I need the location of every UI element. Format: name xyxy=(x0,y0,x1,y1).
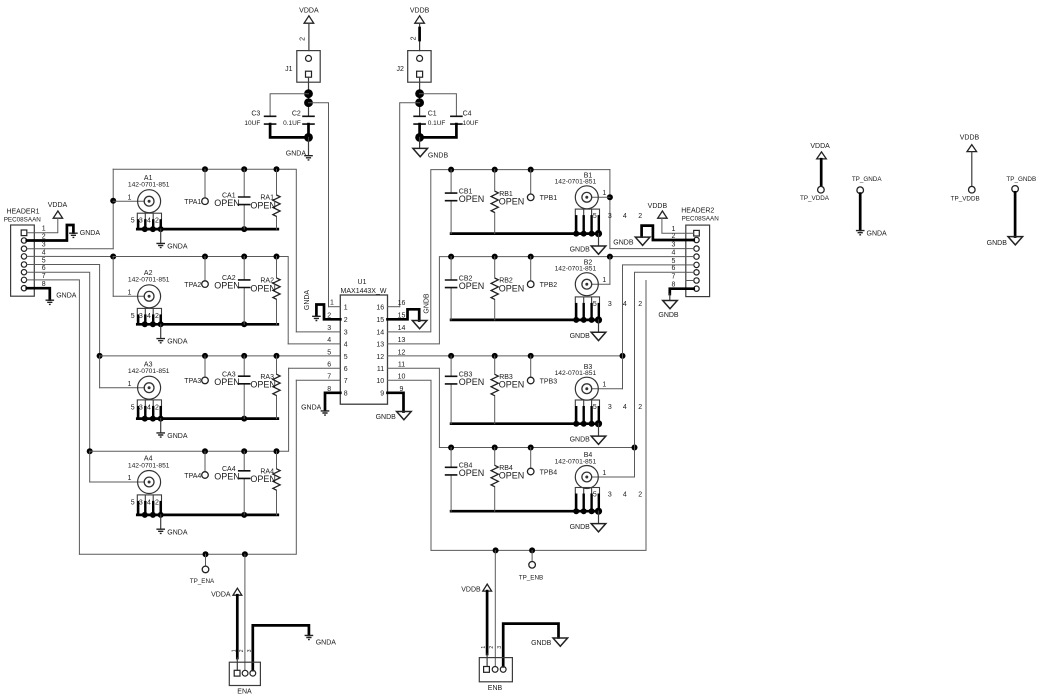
svg-text:PEC08SAAN: PEC08SAAN xyxy=(4,217,42,224)
svg-text:10UF: 10UF xyxy=(244,120,260,127)
svg-text:5: 5 xyxy=(593,213,597,220)
pin number 1 label (B2) xyxy=(602,277,606,284)
svg-text:OPEN: OPEN xyxy=(250,474,276,484)
junction CA1 tap xyxy=(241,166,247,172)
capacitor C2 xyxy=(283,111,315,128)
junction TPA4 tap xyxy=(202,448,208,454)
pin numbers 5 3 4 2 (BNC B2) xyxy=(593,301,642,308)
svg-text:2: 2 xyxy=(155,404,159,411)
svg-text:ENA: ENA xyxy=(237,689,252,696)
ground GNDA (HEADER1 pin 2) xyxy=(69,230,100,237)
svg-text:3: 3 xyxy=(327,325,331,332)
wire net ENA rail xyxy=(79,380,296,554)
svg-text:2: 2 xyxy=(638,404,642,411)
test point TPB4 xyxy=(527,468,557,476)
junction BNC A3 tap xyxy=(97,353,103,359)
svg-text:OPEN: OPEN xyxy=(214,472,240,482)
pin number 1 label (A1) xyxy=(128,194,132,201)
junction BNC B4 tap xyxy=(632,445,638,451)
junction RA1 tap xyxy=(274,166,280,172)
svg-text:14: 14 xyxy=(376,330,384,337)
svg-text:15: 15 xyxy=(376,317,384,324)
wire HEADER2 pin 6 to BNC B4 xyxy=(635,272,686,477)
BNC connector B1 142-0701-851 xyxy=(555,172,599,208)
wire ENA rail to connector pin 2 xyxy=(244,554,246,670)
wire CB1 stubs xyxy=(450,170,452,234)
wire to C4 xyxy=(420,94,457,117)
wire bus to GNDA (A2) xyxy=(160,324,162,338)
svg-text:VDDB: VDDB xyxy=(648,203,668,210)
wire B1 to HEADER2 pin 3 xyxy=(610,170,686,249)
capacitor C4 xyxy=(450,111,478,128)
ground GNDA (bus A3) xyxy=(156,433,187,440)
wire TP_GNDB to GNDB xyxy=(1014,192,1017,236)
junction CA4 tap xyxy=(241,448,247,454)
wire RA2 stubs xyxy=(276,257,278,325)
wire J2 pin 1 down xyxy=(419,77,421,116)
svg-text:5: 5 xyxy=(131,499,135,506)
test point TP_ENA xyxy=(190,566,215,585)
svg-text:2: 2 xyxy=(638,213,642,220)
ground GNDB (bus B4) xyxy=(570,524,606,532)
power symbol VDDB (HEADER2 pin 1) xyxy=(648,203,668,218)
wire net A1 left vertical xyxy=(112,169,114,249)
svg-text:4: 4 xyxy=(42,249,46,256)
wire U1 pin 6 stub xyxy=(289,367,341,369)
wire BNC B3 pin 1 xyxy=(592,388,623,390)
pin numbers 5 3 4 2 (BNC B1) xyxy=(593,213,642,220)
svg-text:4: 4 xyxy=(623,301,627,308)
power symbol VDDB (TP_VDDB) xyxy=(960,134,980,151)
wire B1 top edge xyxy=(388,170,610,332)
ground GNDA (bus A4) xyxy=(156,529,187,536)
svg-text:1: 1 xyxy=(231,649,237,652)
BNC connector A1 142-0701-851 xyxy=(128,175,170,213)
svg-text:3: 3 xyxy=(344,330,348,337)
svg-text:GNDB: GNDB xyxy=(376,414,397,421)
svg-text:2: 2 xyxy=(155,313,159,320)
wire BNC B4 pin 1 xyxy=(592,476,635,478)
capacitor CB4 (OPEN) xyxy=(445,463,485,479)
svg-text:GNDA: GNDA xyxy=(80,230,101,237)
wire RA4 stubs xyxy=(276,451,278,515)
resistor RA1 (OPEN) xyxy=(250,195,280,217)
svg-text:0.1UF: 0.1UF xyxy=(428,120,446,127)
test point TP_ENB xyxy=(519,562,544,582)
ground GNDB (HEADER2 pin 2) xyxy=(613,237,650,246)
BNC A3 pin box xyxy=(137,400,161,419)
wire BNC B2 pin 1 xyxy=(592,283,610,285)
wire U1 pin 16 stub xyxy=(388,306,400,308)
svg-text:C1: C1 xyxy=(428,111,437,118)
ground GNDB (ENB) xyxy=(531,638,568,647)
svg-text:C4: C4 xyxy=(463,111,472,118)
svg-text:142-0701-851: 142-0701-851 xyxy=(128,368,170,375)
svg-text:5: 5 xyxy=(327,349,331,356)
svg-text:10: 10 xyxy=(398,374,406,381)
svg-text:3: 3 xyxy=(608,404,612,411)
svg-text:OPEN: OPEN xyxy=(499,197,525,207)
svg-text:GNDB: GNDB xyxy=(658,312,679,319)
svg-text:TPB2: TPB2 xyxy=(540,282,558,289)
wire U1 pin 8 to GNDA xyxy=(325,393,340,411)
svg-text:OPEN: OPEN xyxy=(250,283,276,293)
svg-text:OPEN: OPEN xyxy=(499,283,525,293)
pin number 2 label (J2) xyxy=(410,36,417,40)
svg-text:J1: J1 xyxy=(285,66,293,73)
svg-text:TPB1: TPB1 xyxy=(540,195,558,202)
wire A3 stub to BNC xyxy=(99,356,101,388)
test point TPB3 xyxy=(527,377,557,385)
svg-text:GNDA: GNDA xyxy=(316,639,337,646)
resistor RB1 (OPEN) xyxy=(491,191,524,213)
wire HEADER2 pin 5 stub xyxy=(686,264,694,266)
svg-text:U1: U1 xyxy=(358,279,367,286)
svg-text:HEADER2: HEADER2 xyxy=(681,208,714,215)
svg-text:1: 1 xyxy=(602,277,606,284)
svg-text:PEC08SAAN: PEC08SAAN xyxy=(682,216,720,223)
svg-text:5: 5 xyxy=(131,218,135,225)
junction bus dots A3 xyxy=(142,416,247,422)
ground GNDA (U1 pin 2) xyxy=(304,290,321,321)
svg-text:OPEN: OPEN xyxy=(214,281,240,291)
svg-text:GNDA: GNDA xyxy=(867,231,888,238)
wire net ENB rail xyxy=(388,281,647,551)
svg-text:3: 3 xyxy=(247,649,253,652)
ground GNDA (TP_GNDA) xyxy=(856,231,887,238)
svg-text:TP_ENA: TP_ENA xyxy=(190,578,215,585)
svg-text:VDDB: VDDB xyxy=(410,7,430,14)
BNC A2 pin box xyxy=(137,308,161,324)
junction RB4 tap xyxy=(492,445,498,451)
svg-text:4: 4 xyxy=(623,213,627,220)
svg-text:1: 1 xyxy=(344,305,348,312)
wire VDDB to ENB pin 1 xyxy=(486,591,489,666)
test point TP_GNDB xyxy=(1006,176,1036,192)
svg-text:142-0701-851: 142-0701-851 xyxy=(128,462,170,469)
wire TP_ENA stub xyxy=(205,554,207,566)
junction CA2 tap xyxy=(241,254,247,260)
wire C3/C2 ground join xyxy=(270,124,308,137)
test point TP_VDDB xyxy=(951,186,980,202)
svg-text:2: 2 xyxy=(638,491,642,498)
svg-text:7: 7 xyxy=(327,373,331,380)
svg-text:4: 4 xyxy=(623,491,627,498)
connector HEADER1 PEC08SAAN xyxy=(4,208,42,296)
junction bus dots B2 xyxy=(573,316,602,323)
svg-text:142-0701-851: 142-0701-851 xyxy=(128,182,170,189)
svg-text:11: 11 xyxy=(377,366,384,373)
wire B2 top edge xyxy=(388,257,686,344)
junction TP_ENA xyxy=(203,551,209,557)
capacitor CA1 (OPEN) xyxy=(214,192,250,208)
svg-text:ENB: ENB xyxy=(488,685,503,692)
wire ground bus B3 xyxy=(451,422,600,425)
junction BNC A1 tap xyxy=(110,198,116,204)
wire RA3 stubs xyxy=(276,356,278,419)
svg-text:142-0701-851: 142-0701-851 xyxy=(555,370,597,377)
svg-text:VDDA: VDDA xyxy=(810,143,830,150)
wire bus to GNDB (B1) xyxy=(598,234,600,246)
svg-text:7: 7 xyxy=(344,378,348,385)
wire bus to GNDB (B3) xyxy=(598,424,600,436)
BNC connector B2 142-0701-851 xyxy=(555,259,599,295)
wire HEADER2 pin 3 stub xyxy=(686,248,694,250)
junction GNDA (below C2) xyxy=(304,133,313,142)
svg-text:1: 1 xyxy=(602,190,606,197)
svg-text:TPB4: TPB4 xyxy=(540,469,558,476)
wire ENB rail to connector pin 2 xyxy=(494,550,496,666)
wire CA2 stubs xyxy=(243,257,245,325)
svg-text:VDDA: VDDA xyxy=(48,202,68,209)
wire TPB3 stub xyxy=(530,356,532,377)
svg-text:5: 5 xyxy=(131,404,135,411)
wire U1 pin 3 stub xyxy=(296,331,340,333)
svg-text:7: 7 xyxy=(672,273,676,280)
svg-text:5: 5 xyxy=(593,491,597,498)
test point TPB1 xyxy=(527,194,557,202)
svg-text:GNDA: GNDA xyxy=(301,404,322,411)
svg-text:GNDB: GNDB xyxy=(613,239,634,246)
svg-text:4: 4 xyxy=(672,250,676,257)
connector ENB xyxy=(479,658,512,692)
pin number 1 label (B3) xyxy=(602,382,606,389)
junction bus dots B1 xyxy=(573,230,602,237)
ground GNDA (bus A1) xyxy=(156,243,187,250)
svg-text:2: 2 xyxy=(489,646,495,649)
svg-text:TP_VDDB: TP_VDDB xyxy=(951,196,980,203)
op-amp U1 MAX1443X_W xyxy=(340,279,387,404)
connector ENA xyxy=(229,662,260,695)
resistor RA3 (OPEN) xyxy=(250,374,280,396)
svg-text:5: 5 xyxy=(42,257,46,264)
junction RA3 tap xyxy=(274,353,280,359)
svg-text:2: 2 xyxy=(155,218,159,225)
wire bus to GNDA (A4) xyxy=(160,515,162,529)
svg-text:8: 8 xyxy=(344,391,348,398)
BNC connector A4 142-0701-851 xyxy=(128,456,170,494)
pin number 2 label (J1) xyxy=(300,37,307,41)
wire bus to GNDA (A1) xyxy=(160,229,162,243)
svg-text:OPEN: OPEN xyxy=(214,198,240,208)
capacitor C1 xyxy=(413,111,445,128)
wire TPA3 stub xyxy=(204,356,206,377)
power symbol VDDA (TP_VDDA) xyxy=(810,143,830,159)
svg-text:OPEN: OPEN xyxy=(250,380,276,390)
wire U1 pin 1 stub xyxy=(329,306,341,308)
svg-text:3: 3 xyxy=(42,242,46,249)
svg-text:1: 1 xyxy=(602,382,606,389)
svg-text:142-0701-851: 142-0701-851 xyxy=(128,277,170,284)
svg-text:3: 3 xyxy=(139,499,143,506)
svg-text:2: 2 xyxy=(300,37,307,41)
U1 outside pin number 1 xyxy=(330,299,334,306)
svg-text:6: 6 xyxy=(344,366,348,373)
pin labels 1 2 3 (ENA) xyxy=(231,649,253,652)
svg-text:TPA1: TPA1 xyxy=(184,199,201,206)
pin number 1 label (A3) xyxy=(128,381,132,388)
wire bus to GNDA (A3) xyxy=(160,419,162,433)
junction TPB1 tap xyxy=(528,167,534,173)
wire HEADER1 pin 6 (net A4) xyxy=(27,272,90,451)
test point TPA2 xyxy=(184,281,208,289)
wire HEADER1 pin 7 (net ENA) xyxy=(27,280,80,554)
svg-text:4: 4 xyxy=(147,404,151,411)
junction TPB2 tap xyxy=(528,254,534,260)
connector HEADER2 PEC08SAAN xyxy=(681,208,719,297)
wire HEADER2 pin 4 stub xyxy=(686,256,694,258)
BNC connector A3 142-0701-851 xyxy=(128,361,170,399)
svg-text:3: 3 xyxy=(608,491,612,498)
svg-text:1: 1 xyxy=(42,226,46,233)
wire TP_ENB stub xyxy=(531,550,533,561)
junction CB1 tap xyxy=(448,167,454,173)
wire A2 top edge xyxy=(113,257,288,344)
wire A4 top edge xyxy=(90,368,289,451)
pin numbers 5 3 4 2 (BNC A4) xyxy=(131,499,159,506)
wire CA3 stubs xyxy=(243,356,245,419)
svg-text:13: 13 xyxy=(398,337,406,344)
wire CB3 stubs xyxy=(450,356,452,424)
svg-text:GNDB: GNDB xyxy=(987,240,1008,247)
svg-text:TP_GNDB: TP_GNDB xyxy=(1006,176,1036,183)
pin numbers 5 3 4 2 (BNC A1) xyxy=(131,218,159,225)
wire TPA4 stub xyxy=(204,451,206,472)
svg-text:TPA3: TPA3 xyxy=(184,378,201,385)
junction bus dots A1 xyxy=(142,226,247,232)
svg-text:GNDA: GNDA xyxy=(286,150,307,157)
wire HEADER1 pin 2 to GNDA xyxy=(27,225,74,241)
svg-text:4: 4 xyxy=(623,404,627,411)
junction bus dots B3 xyxy=(573,420,602,427)
junction ENB tap xyxy=(493,547,499,553)
svg-text:VDDB: VDDB xyxy=(960,134,980,141)
svg-text:5: 5 xyxy=(131,313,135,320)
wire ground bus B1 xyxy=(451,232,600,235)
svg-text:1: 1 xyxy=(602,470,606,477)
capacitor CB3 (OPEN) xyxy=(445,372,485,388)
wire to GNDB symbol xyxy=(419,137,421,148)
pin number 1 label (A2) xyxy=(128,290,132,297)
junction TP_ENB xyxy=(529,547,535,553)
wire VDDA rail to U1 pin 1 xyxy=(309,103,329,307)
svg-text:3: 3 xyxy=(139,404,143,411)
ground GNDB (HEADER2 pin 8) xyxy=(658,301,679,319)
BNC B3 pin box xyxy=(575,400,599,424)
test point TPB2 xyxy=(527,281,557,289)
BNC connector B3 142-0701-851 xyxy=(555,364,599,400)
wire HEADER1 pin 8 to GNDA xyxy=(27,288,50,299)
capacitor CA2 (OPEN) xyxy=(214,275,250,291)
wire HEADER2 pin 6 stub xyxy=(686,271,694,273)
svg-text:VDDA: VDDA xyxy=(211,592,231,599)
junction CB4 tap xyxy=(448,445,454,451)
ground GNDA (HEADER1 pin 8) xyxy=(46,292,77,304)
BNC connector B4 142-0701-851 xyxy=(555,452,599,488)
capacitor CA4 (OPEN) xyxy=(214,466,250,482)
svg-text:3: 3 xyxy=(497,646,503,649)
svg-text:OPEN: OPEN xyxy=(459,281,485,291)
svg-text:MAX1443X_W: MAX1443X_W xyxy=(341,288,387,295)
wire HEADER1 pin 3 (net A1) xyxy=(27,248,113,250)
wire TP_GNDA to GNDA xyxy=(859,194,862,230)
BNC connector A2 142-0701-851 xyxy=(128,270,170,308)
pin number 1 label (B4) xyxy=(602,470,606,477)
svg-text:3: 3 xyxy=(608,213,612,220)
svg-text:GNDA: GNDA xyxy=(304,290,311,311)
ground GNDB (U1 pin 9) xyxy=(376,412,412,421)
junction RB3 tap xyxy=(492,353,498,359)
svg-text:C2: C2 xyxy=(292,111,301,118)
wire VDDA to TP_VDDA xyxy=(820,159,823,186)
svg-text:GNDB: GNDB xyxy=(570,437,591,444)
svg-text:VDDB: VDDB xyxy=(461,586,481,593)
svg-text:2: 2 xyxy=(155,499,159,506)
wire U1 pin 4 stub xyxy=(288,343,340,345)
svg-text:GNDB: GNDB xyxy=(570,524,591,531)
wire ground bus B4 xyxy=(451,510,600,513)
junction CB2 tap xyxy=(448,254,454,260)
svg-text:4: 4 xyxy=(327,337,331,344)
wire RB1 stubs xyxy=(494,170,496,234)
U1 pin numbers inside left 1-8 xyxy=(344,305,348,398)
wire to C3 xyxy=(270,94,308,117)
svg-text:OPEN: OPEN xyxy=(499,380,525,390)
svg-text:7: 7 xyxy=(42,273,46,280)
svg-text:OPEN: OPEN xyxy=(214,377,240,387)
svg-text:VDDA: VDDA xyxy=(299,7,319,14)
wire ENA pin 3 to GNDA xyxy=(253,625,309,670)
svg-text:10UF: 10UF xyxy=(463,120,479,127)
BNC B4 pin box xyxy=(575,488,599,512)
wire BNC A2 pin 1 xyxy=(113,295,144,297)
BNC B2 pin box xyxy=(575,297,599,320)
junction TPA1 tap xyxy=(202,166,208,172)
svg-text:HEADER1: HEADER1 xyxy=(6,208,39,215)
wire ground bus A1 xyxy=(137,228,277,231)
svg-text:4: 4 xyxy=(147,313,151,320)
junction bus dots B4 xyxy=(573,508,602,515)
svg-text:1: 1 xyxy=(128,290,132,297)
junction TPB3 tap xyxy=(528,353,534,359)
wire C4/C1 ground join xyxy=(420,124,457,137)
svg-text:3: 3 xyxy=(672,242,676,249)
svg-text:J2: J2 xyxy=(396,66,404,73)
svg-text:12: 12 xyxy=(376,354,384,361)
svg-text:C3: C3 xyxy=(251,111,260,118)
svg-text:OPEN: OPEN xyxy=(459,468,485,478)
ground GNDB (J2 cluster) xyxy=(413,148,449,159)
wire U1 pin 9 to GNDB xyxy=(388,393,404,412)
svg-text:TPA4: TPA4 xyxy=(184,473,201,480)
wire B2 stub to BNC xyxy=(609,257,611,285)
svg-text:TPA2: TPA2 xyxy=(184,282,201,289)
svg-text:1: 1 xyxy=(128,194,132,201)
resistor RA2 (OPEN) xyxy=(250,278,280,300)
power symbol VDDB (ENB) xyxy=(461,584,491,593)
U1 pin numbers inside right 16-9 xyxy=(376,305,384,398)
wire BNC A3 pin 1 xyxy=(100,387,145,389)
svg-text:2: 2 xyxy=(344,317,348,324)
BNC A4 pin box xyxy=(137,495,161,515)
ground GNDB (bus B3) xyxy=(570,436,606,444)
svg-text:OPEN: OPEN xyxy=(250,200,276,210)
wire bus to GNDB (B4) xyxy=(598,511,600,523)
wire U1 pin 7 stub xyxy=(296,379,340,381)
ground GNDA (bus A2) xyxy=(156,339,187,346)
junction BNC A4 tap xyxy=(87,448,93,454)
test point TPA1 xyxy=(184,198,208,206)
